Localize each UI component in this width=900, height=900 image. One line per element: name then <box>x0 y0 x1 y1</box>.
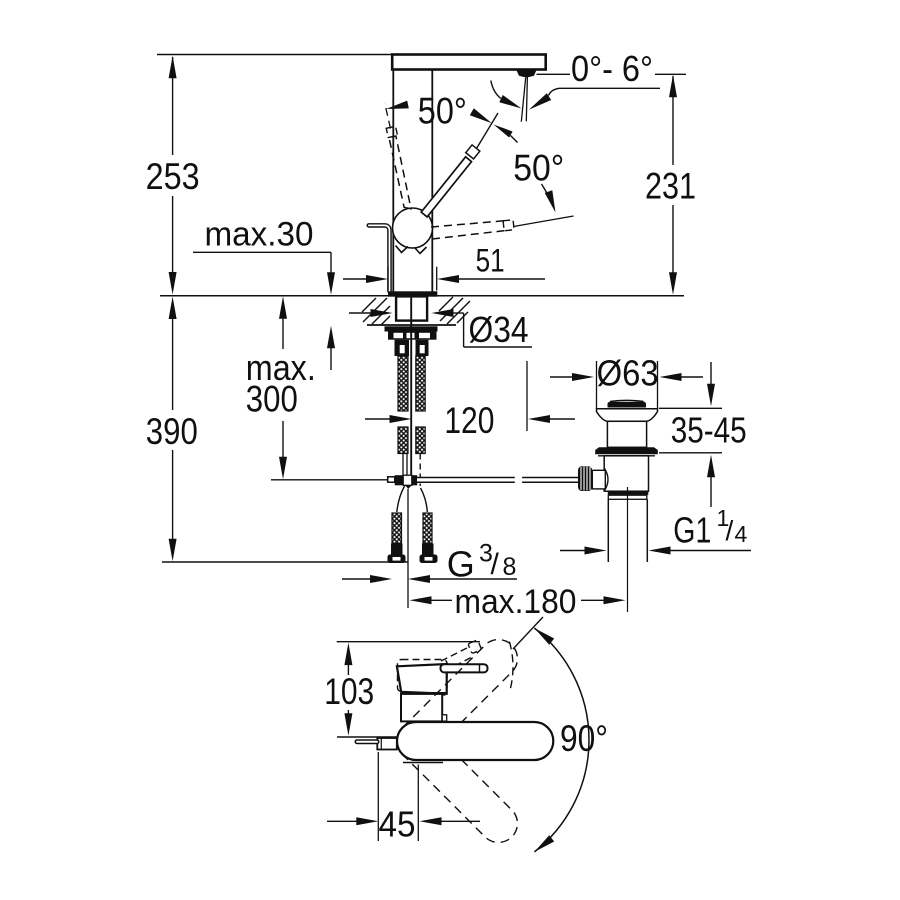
svg-text:103: 103 <box>324 671 374 712</box>
svg-text:max.180: max.180 <box>455 583 577 621</box>
svg-text:300: 300 <box>246 379 298 420</box>
label G 3/8 <box>447 540 517 585</box>
faucet spout bar <box>392 55 546 70</box>
dimension 45 <box>327 752 480 845</box>
mounting washer <box>385 326 438 331</box>
top view reference line top <box>337 641 480 643</box>
counter hatching right <box>439 297 470 324</box>
counter top line <box>160 295 684 297</box>
dashed rotated handle <box>441 640 482 671</box>
hose fitting left <box>395 340 410 356</box>
svg-text:0°- 6°: 0°- 6° <box>571 48 653 89</box>
label max.300 <box>246 296 316 479</box>
handle lever bar top view <box>441 664 488 672</box>
dashed lever swing arc <box>509 642 513 693</box>
svg-text:35-45: 35-45 <box>671 410 747 451</box>
svg-text:8: 8 <box>503 553 517 581</box>
label max.30 <box>193 216 335 371</box>
svg-text:90°: 90° <box>560 718 608 759</box>
lever ball joint <box>393 208 433 248</box>
svg-text:253: 253 <box>146 156 200 197</box>
dimension 390 <box>146 297 198 562</box>
neck top view <box>401 694 447 722</box>
drain lower ring <box>608 491 649 499</box>
top reference line <box>157 54 394 56</box>
threaded shank <box>396 296 427 320</box>
braided hose right lower <box>416 427 425 454</box>
horizontal pop-up rod to drain <box>417 477 579 483</box>
dashed swivel stadium down-right <box>398 723 517 842</box>
svg-text:4: 4 <box>735 521 748 547</box>
plug extension lines <box>597 361 658 409</box>
dimension G1 1/4 <box>560 505 751 555</box>
label 50 deg lower <box>513 148 564 189</box>
drain tailpipe <box>608 499 647 562</box>
svg-text:Ø63: Ø63 <box>597 353 659 394</box>
dashed swivel stadium up-right <box>398 640 517 759</box>
dashed lever (open flat position) <box>431 216 574 239</box>
rod T-junction <box>388 475 417 489</box>
dimension 253 <box>146 56 200 295</box>
svg-text:max.30: max.30 <box>205 216 314 254</box>
hose tail left double line <box>397 454 407 513</box>
faucet body left wall <box>392 70 394 292</box>
neck bottom edge behind spout <box>403 762 443 764</box>
dimension diameter 63 <box>550 353 703 394</box>
drain centerline <box>627 487 629 612</box>
faucet base plate <box>388 291 437 296</box>
dimension 35-45 <box>659 362 747 507</box>
drain body <box>598 456 655 491</box>
hose tail right dashed <box>420 454 427 513</box>
top view reference line bottom <box>337 736 399 738</box>
rod break gap <box>515 475 522 485</box>
pop-up rod vertical <box>410 298 412 477</box>
reference line to max300 <box>271 479 388 481</box>
bottom reference line <box>162 561 408 563</box>
dimension 120 <box>365 361 575 441</box>
drain plug cap <box>608 400 647 407</box>
ball dashed marks <box>396 246 427 254</box>
label 50 deg upper <box>418 91 467 132</box>
pull rod top view <box>357 739 377 744</box>
svg-text:120: 120 <box>444 400 494 441</box>
label 90 deg <box>560 718 608 759</box>
dimension 103 <box>324 643 374 736</box>
svg-text:/: / <box>726 515 734 546</box>
stream leader right with arrow <box>529 88 660 110</box>
swivel arc 90 deg <box>534 628 589 852</box>
handle body top view <box>397 664 447 694</box>
dimension max.180 <box>410 583 626 621</box>
dimension 51 <box>343 243 545 291</box>
svg-text:Ø34: Ø34 <box>469 309 529 350</box>
counter hatching left <box>362 298 390 325</box>
svg-text:/: / <box>491 548 500 581</box>
pop-up pull rod side view <box>369 225 390 291</box>
angle arc 50 deg upper (arrowheads and crossing) <box>386 101 517 143</box>
svg-text:51: 51 <box>476 243 505 279</box>
spout stadium solid <box>397 722 553 760</box>
braided hose right upper <box>416 356 425 411</box>
label 0-6 degrees <box>537 48 687 89</box>
aerator outlet <box>516 70 536 77</box>
solid lever (raised position) <box>421 113 498 217</box>
aerator tab top view <box>377 738 397 750</box>
svg-text:231: 231 <box>645 166 696 207</box>
svg-text:390: 390 <box>146 411 198 452</box>
faucet body right wall <box>431 70 433 292</box>
drain plug rim <box>597 409 658 422</box>
dimension G3/8 arrows <box>342 575 517 583</box>
svg-text:50°: 50° <box>418 91 467 132</box>
svg-text:G1: G1 <box>673 510 711 551</box>
drain neck <box>607 421 646 447</box>
drain knob stem <box>592 469 608 491</box>
mounting nut <box>388 332 437 340</box>
faucet centerline extension <box>407 489 409 608</box>
stream swivel arc left <box>491 81 522 109</box>
braided hose left upper <box>398 356 408 411</box>
G3/8 fitting left <box>388 513 406 563</box>
drain knurled knob <box>578 466 592 491</box>
counter bottom line <box>367 324 456 326</box>
dashed handle raised outline <box>398 660 448 692</box>
braided hose left lower <box>398 427 408 454</box>
svg-text:45: 45 <box>379 804 416 845</box>
dimension 231 <box>645 75 696 295</box>
hose fitting right <box>416 340 429 356</box>
svg-text:50°: 50° <box>513 148 564 189</box>
leader 50 deg lower <box>542 184 556 213</box>
dashed lever (closed position) <box>385 103 411 209</box>
leader from max180 <box>513 617 543 649</box>
drain flange <box>595 447 658 454</box>
dimension diameter 34 <box>349 309 532 350</box>
water stream lines 0-6 deg <box>521 77 527 122</box>
G3/8 fitting right <box>420 513 438 563</box>
